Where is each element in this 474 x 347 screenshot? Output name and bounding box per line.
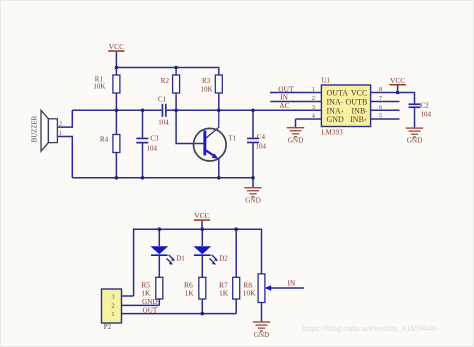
svg-text:T1: T1 [228, 134, 236, 142]
svg-text:R2: R2 [161, 77, 170, 85]
svg-text:OUTA: OUTA [327, 89, 349, 98]
svg-text:VCC: VCC [390, 76, 405, 85]
svg-text:10K: 10K [243, 289, 257, 298]
svg-text:1: 1 [312, 86, 315, 93]
svg-text:5: 5 [379, 112, 382, 119]
svg-text:C1: C1 [158, 95, 167, 103]
svg-text:VCC: VCC [109, 42, 124, 51]
svg-text:AC: AC [279, 101, 289, 110]
svg-text:INB-: INB- [352, 106, 368, 115]
svg-text:C4: C4 [257, 133, 266, 141]
svg-text:1K: 1K [219, 289, 229, 298]
svg-text:3: 3 [312, 104, 315, 111]
svg-text:1K: 1K [185, 289, 195, 298]
svg-text:VCC: VCC [351, 89, 367, 98]
svg-text:104: 104 [147, 145, 158, 153]
svg-text:OUTB: OUTB [346, 97, 368, 106]
svg-text:BUZZER: BUZZER [31, 115, 38, 142]
svg-text:R4: R4 [100, 136, 109, 144]
svg-text:GND: GND [142, 298, 158, 306]
svg-text:10K: 10K [201, 86, 213, 94]
svg-text:GND: GND [245, 196, 261, 204]
svg-text:R3: R3 [202, 77, 211, 85]
svg-text:GND: GND [288, 136, 304, 144]
svg-text:P2: P2 [104, 323, 112, 331]
svg-text:U1: U1 [322, 76, 331, 84]
svg-text:1K: 1K [141, 289, 151, 298]
svg-text:C2: C2 [421, 101, 430, 109]
svg-text:GND: GND [407, 137, 423, 145]
svg-text:2: 2 [312, 95, 315, 102]
svg-text:IN: IN [288, 279, 296, 288]
svg-text:INA-: INA- [327, 97, 343, 106]
svg-text:VCC: VCC [194, 211, 209, 220]
svg-text:GND: GND [254, 331, 270, 339]
svg-text:104: 104 [421, 110, 432, 118]
svg-text:10K: 10K [93, 83, 105, 91]
svg-text:1: 1 [59, 130, 62, 137]
svg-text:1: 1 [111, 311, 114, 318]
svg-text:D1: D1 [176, 255, 185, 263]
svg-text:3: 3 [111, 293, 114, 300]
svg-text:6: 6 [379, 104, 382, 111]
svg-text:2: 2 [111, 303, 114, 310]
svg-text:104: 104 [158, 118, 169, 126]
svg-text:8: 8 [379, 86, 382, 93]
svg-text:2: 2 [59, 121, 62, 128]
svg-text:D2: D2 [219, 255, 228, 263]
svg-text:GND: GND [327, 115, 345, 124]
svg-text:104: 104 [256, 143, 267, 151]
svg-text:OUT: OUT [143, 306, 158, 314]
svg-text:LM393: LM393 [321, 129, 343, 136]
svg-text:C3: C3 [150, 135, 159, 143]
svg-text:https://blog.csdn.net/weixin_4: https://blog.csdn.net/weixin_41659040 [302, 323, 436, 333]
